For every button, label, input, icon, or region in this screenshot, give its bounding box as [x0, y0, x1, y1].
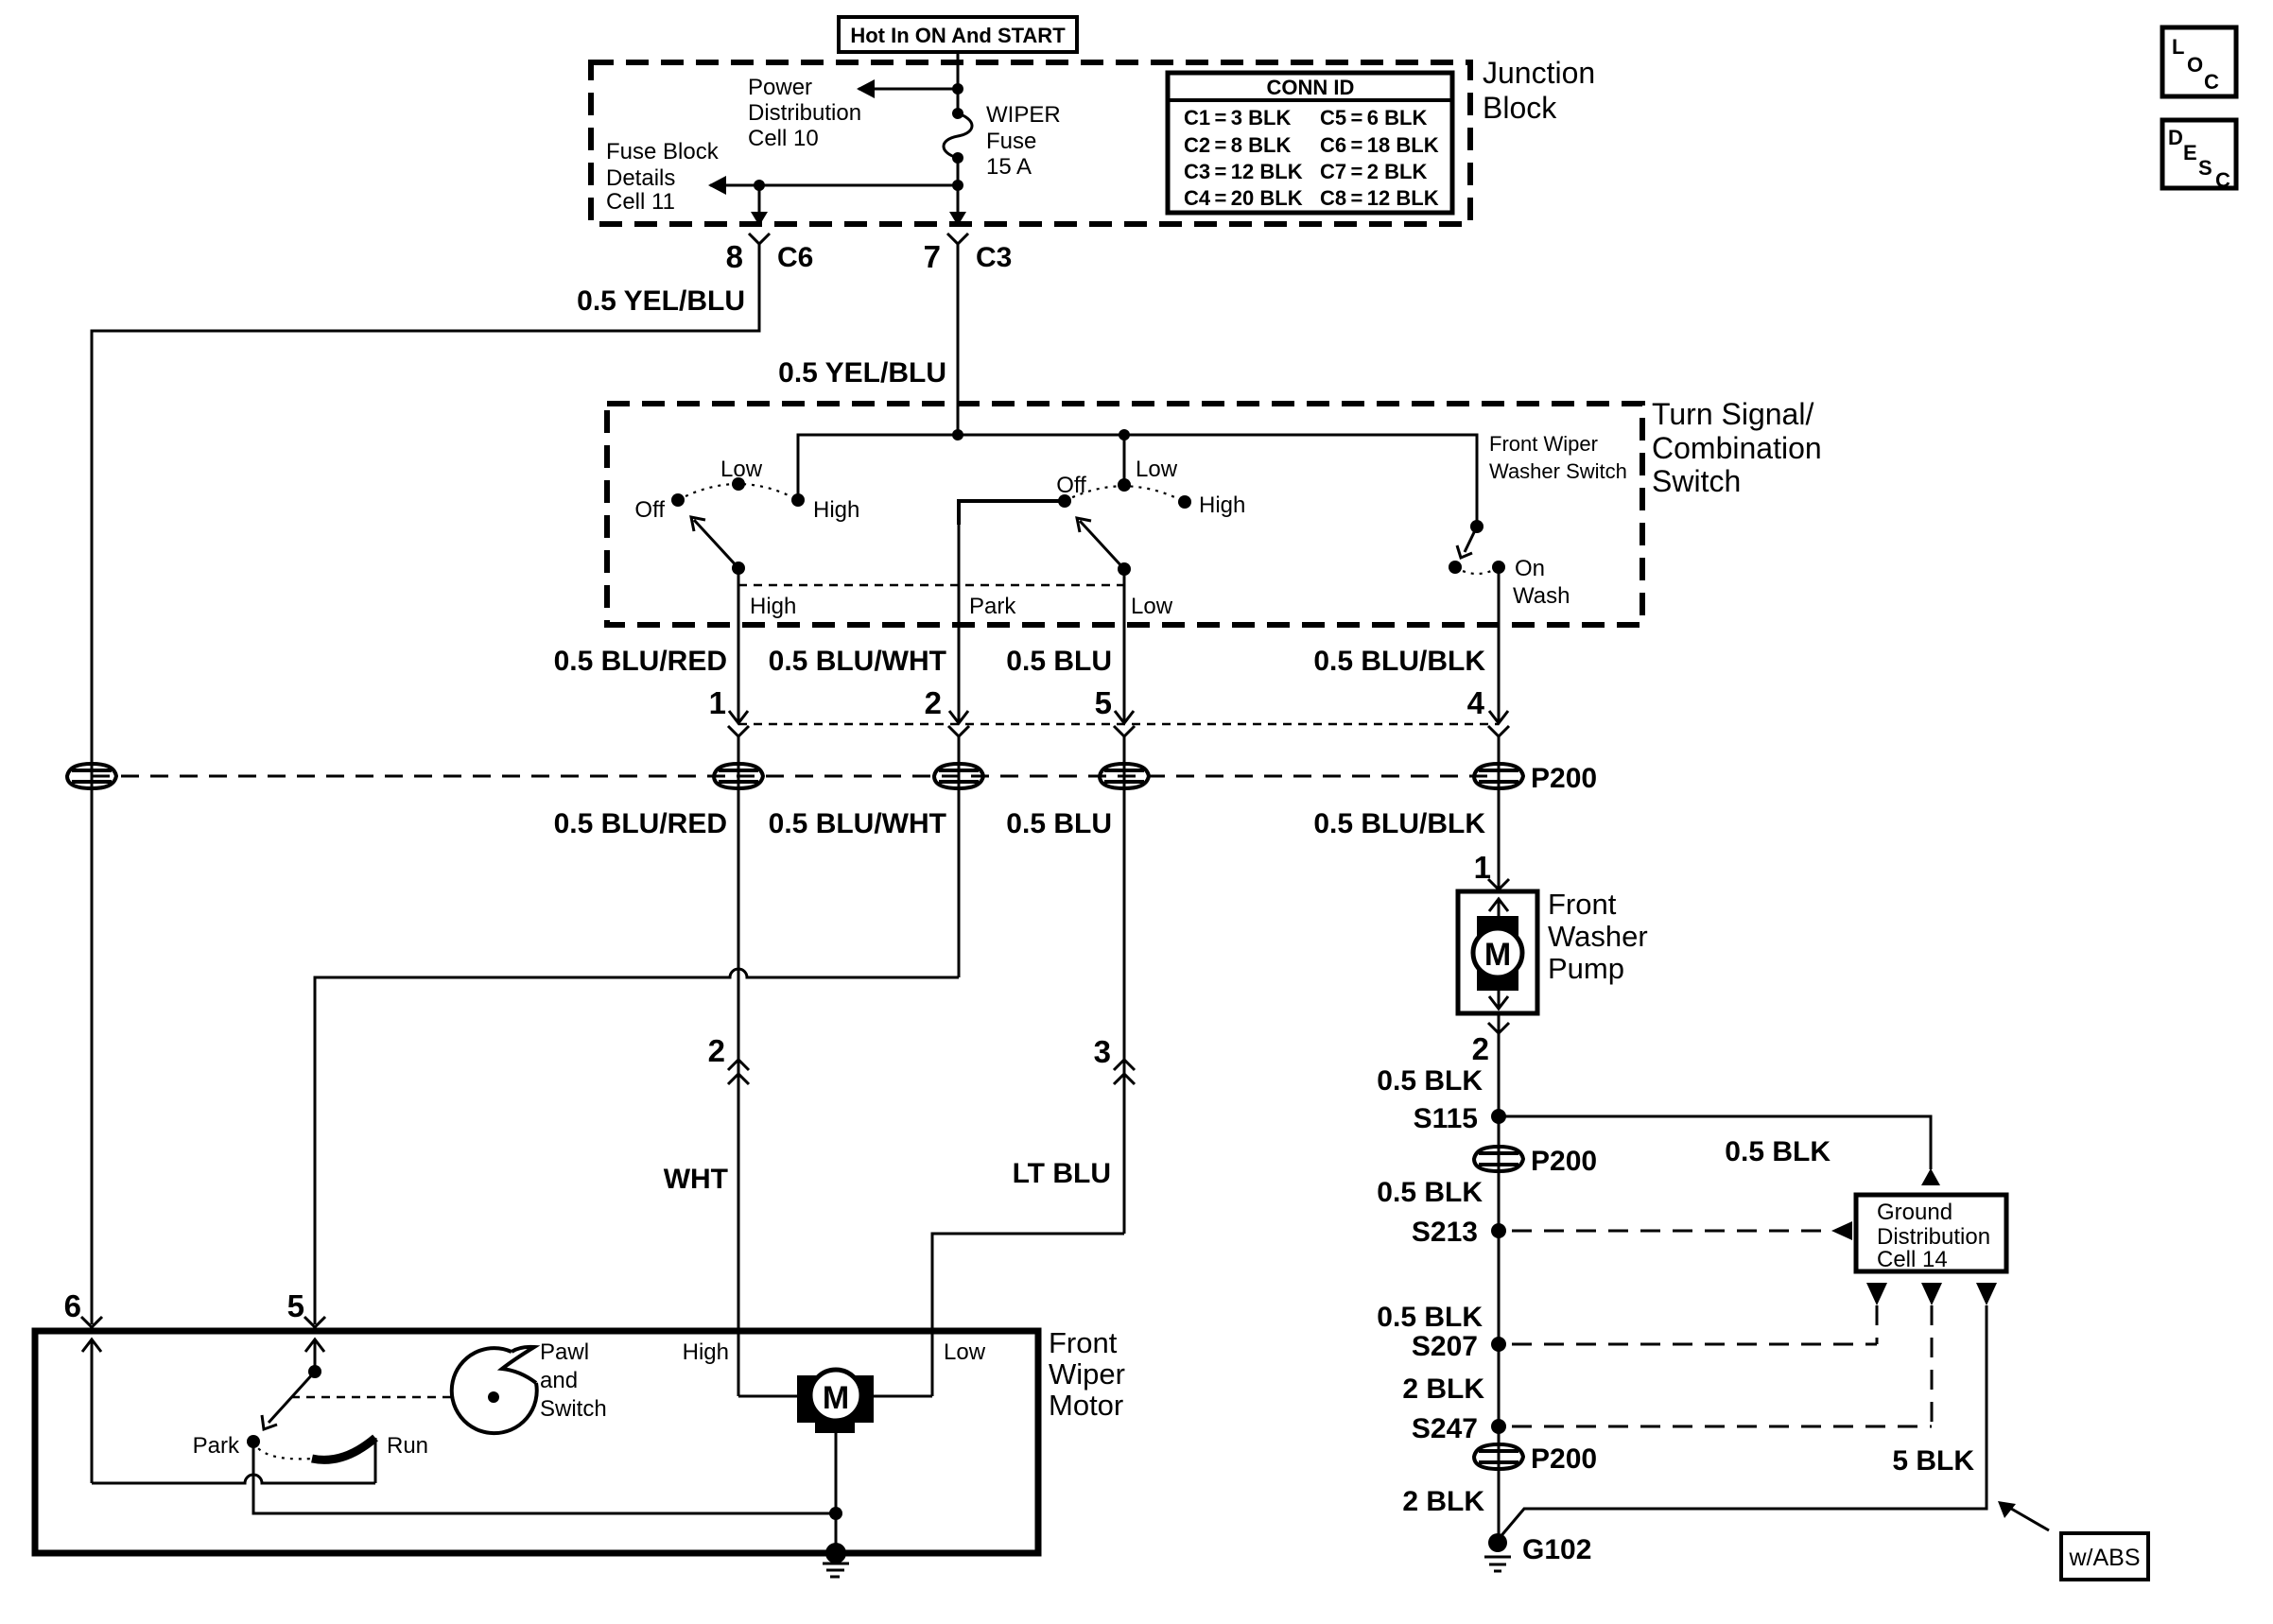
switch wiper select mid: Off/Low/High [1065, 486, 1185, 502]
svg-text:Park: Park [193, 1433, 240, 1459]
svg-text:C7 = 2 BLK: C7 = 2 BLK [1320, 160, 1427, 183]
switch front wiper washer [1470, 520, 1484, 533]
wire dashed stub to S207 [1876, 1305, 1879, 1344]
w/ABS callout [2006, 1506, 2049, 1530]
svg-text:0.5 YEL/BLU: 0.5 YEL/BLU [577, 285, 745, 317]
svg-text:WIPER: WIPER [986, 102, 1061, 128]
node motor common [829, 1507, 842, 1520]
svg-text:Junction: Junction [1483, 56, 1595, 90]
motor M1 washer pump symbol [1498, 900, 1501, 919]
svg-text:Turn Signal/: Turn Signal/ [1652, 397, 1813, 431]
wire high into motor [738, 1395, 810, 1398]
wire low to motor [932, 1234, 1124, 1396]
svg-text:w/ABS: w/ABS [2068, 1545, 2140, 1571]
svg-text:C3: C3 [976, 242, 1012, 273]
dashed link lever to pawl [291, 1396, 451, 1399]
node S247 [1491, 1419, 1506, 1434]
svg-text:P200: P200 [1531, 763, 1597, 794]
svg-text:Front: Front [1548, 888, 1617, 921]
svg-text:15 A: 15 A [986, 154, 1032, 180]
park/run switch lever [308, 1365, 321, 1378]
wire from hot box into fuse [957, 52, 960, 113]
node S207 [1491, 1337, 1506, 1352]
svg-text:Low: Low [1131, 594, 1173, 619]
svg-text:0.5 BLU/RED: 0.5 BLU/RED [554, 808, 727, 839]
fuse F1 WIPER 15A [952, 108, 963, 119]
node bus low junction [1119, 429, 1130, 441]
svg-text:Wiper: Wiper [1049, 1357, 1125, 1391]
svg-text:C8 = 12 BLK: C8 = 12 BLK [1320, 186, 1439, 210]
svg-text:E: E [2183, 141, 2197, 164]
svg-text:0.5 YEL/BLU: 0.5 YEL/BLU [778, 357, 946, 389]
wire low into motor [861, 1395, 932, 1398]
svg-text:and: and [540, 1368, 578, 1393]
wire high drop [737, 568, 740, 722]
node bus C3 junction [952, 429, 963, 441]
svg-text:C1 = 3 BLK: C1 = 3 BLK [1184, 106, 1291, 130]
connector pin row dashed [738, 723, 1499, 726]
node park contact [247, 1435, 260, 1448]
svg-text:M: M [1484, 937, 1511, 973]
svg-text:5 BLK: 5 BLK [1892, 1445, 1974, 1477]
svg-text:C5 = 6 BLK: C5 = 6 BLK [1320, 106, 1427, 130]
svg-text:High: High [683, 1339, 729, 1365]
wire S115 branch to ground distribution [1499, 1116, 1931, 1169]
svg-text:Cell 14: Cell 14 [1877, 1247, 1948, 1272]
pawl and switch cam [452, 1348, 537, 1433]
svg-text:D: D [2168, 126, 2183, 149]
node fuse block tap [952, 180, 963, 191]
wire park drop [958, 501, 961, 722]
motor M2 front wiper symbol [797, 1375, 874, 1423]
svg-text:P200: P200 [1531, 1146, 1597, 1177]
wire dashed stub to S247 [1931, 1305, 1934, 1426]
svg-text:S: S [2198, 156, 2212, 180]
svg-text:High: High [750, 594, 796, 619]
svg-text:Park: Park [969, 594, 1016, 619]
svg-text:LT BLU: LT BLU [1013, 1158, 1111, 1189]
pin 2 washer pump [1488, 1023, 1509, 1033]
svg-text:5: 5 [1095, 685, 1112, 720]
svg-text:0.5 BLK: 0.5 BLK [1377, 1177, 1483, 1208]
svg-text:C4 = 20 BLK: C4 = 20 BLK [1184, 186, 1303, 210]
svg-text:M: M [823, 1380, 849, 1416]
node S115 [1491, 1109, 1506, 1124]
pin arrows into connector row [729, 711, 748, 723]
LOC box [2162, 27, 2236, 96]
svg-text:Ground: Ground [1877, 1200, 1952, 1225]
svg-text:8: 8 [726, 239, 743, 274]
svg-text:S247: S247 [1412, 1413, 1478, 1444]
wire terminal6 to run with hop [92, 1475, 375, 1483]
svg-text:G102: G102 [1522, 1534, 1591, 1565]
wire washer pump ground leg [1498, 1013, 1501, 1541]
wire feed bus [798, 435, 1477, 527]
svg-text:S207: S207 [1412, 1331, 1478, 1362]
svg-text:C: C [2215, 168, 2230, 192]
svg-text:Low: Low [944, 1339, 986, 1365]
svg-text:0.5 BLK: 0.5 BLK [1377, 1302, 1483, 1333]
wire fuse block details arrow [710, 184, 958, 187]
park run contact arc [253, 1442, 312, 1459]
wire low drop [1123, 569, 1126, 722]
svg-text:2: 2 [1472, 1031, 1489, 1066]
switch wiper select left: Off/Low/High [678, 484, 798, 500]
wire 0.5 YEL/BLU from C3 [957, 244, 960, 435]
svg-text:Low: Low [720, 457, 763, 482]
svg-text:4: 4 [1467, 685, 1485, 720]
svg-text:WHT: WHT [664, 1164, 728, 1195]
wire S207 dashed branch [1512, 1343, 1877, 1346]
svg-text:0.5 BLK: 0.5 BLK [1725, 1136, 1831, 1167]
wire segments to P200 row [737, 736, 740, 1396]
svg-text:Wash: Wash [1513, 583, 1570, 609]
svg-text:C3 = 12 BLK: C3 = 12 BLK [1184, 160, 1303, 183]
svg-text:Front Wiper: Front Wiper [1489, 432, 1598, 456]
pin 8 C6 exit arrows [751, 212, 768, 226]
switch lever left [694, 520, 738, 568]
svg-text:Hot In ON And START: Hot In ON And START [850, 24, 1066, 47]
svg-text:Cell 11: Cell 11 [606, 189, 675, 215]
svg-text:Power: Power [748, 75, 812, 100]
svg-text:Pump: Pump [1548, 952, 1624, 985]
ground distribution cell 14 box [1856, 1195, 2006, 1271]
svg-text:Fuse: Fuse [986, 129, 1036, 154]
wire low feed [1123, 435, 1126, 485]
svg-text:Washer Switch: Washer Switch [1489, 459, 1627, 483]
connector P200 on left rail [67, 764, 116, 788]
wire wash drop [1498, 567, 1501, 722]
connector P200 blu/red [714, 764, 763, 788]
svg-text:3: 3 [1094, 1034, 1111, 1069]
svg-text:0.5 BLU/WHT: 0.5 BLU/WHT [769, 808, 946, 839]
svg-text:2 BLK: 2 BLK [1402, 1486, 1484, 1517]
svg-text:C6: C6 [777, 242, 813, 273]
svg-text:Fuse Block: Fuse Block [606, 139, 720, 164]
ground G102 [1488, 1533, 1507, 1552]
svg-text:Cell 10: Cell 10 [748, 126, 819, 151]
switch lever mid [1080, 521, 1124, 569]
svg-text:Combination: Combination [1652, 431, 1822, 465]
svg-text:Run: Run [387, 1433, 428, 1459]
svg-text:2 BLK: 2 BLK [1402, 1373, 1484, 1405]
wire S247 dashed branch [1512, 1425, 1932, 1428]
svg-text:Block: Block [1483, 91, 1557, 125]
svg-text:Motor: Motor [1049, 1389, 1123, 1422]
ground motor case [825, 1543, 846, 1564]
svg-text:High: High [813, 497, 859, 523]
node power distribution tap [952, 83, 963, 95]
svg-text:0.5 BLU: 0.5 BLU [1006, 646, 1112, 677]
svg-text:C2 = 8 BLK: C2 = 8 BLK [1184, 133, 1291, 157]
turn signal / combination switch dashed box [607, 404, 1642, 625]
svg-text:O: O [2187, 53, 2203, 77]
svg-text:Front: Front [1049, 1326, 1118, 1359]
svg-text:0.5 BLU/BLK: 0.5 BLU/BLK [1313, 646, 1485, 677]
svg-text:0.5 BLU: 0.5 BLU [1006, 808, 1112, 839]
junction block dashed box [591, 62, 1470, 224]
svg-text:Details: Details [606, 165, 675, 191]
node S213 [1491, 1223, 1506, 1238]
svg-text:Off: Off [1056, 473, 1086, 498]
wire power distribution arrow [859, 88, 958, 91]
svg-text:5: 5 [287, 1288, 304, 1323]
svg-text:6: 6 [64, 1288, 81, 1323]
svg-text:S115: S115 [1414, 1103, 1478, 1134]
svg-text:Distribution: Distribution [1877, 1224, 1990, 1250]
wire park to motor common [253, 1442, 836, 1513]
connector P200 blu/blk [1474, 764, 1523, 788]
DESC box [2162, 120, 2236, 188]
wire 0.5 YEL/BLU from C6 down left rail [92, 244, 759, 1324]
svg-text:Low: Low [1136, 457, 1178, 482]
Hot In ON And START box [839, 17, 1077, 52]
connector P200 blk [1474, 1147, 1523, 1171]
front wiper motor box [35, 1331, 1038, 1553]
connector P200 bottom [1474, 1444, 1523, 1469]
P200 pass-through dashed line [92, 775, 1499, 778]
svg-text:C: C [2204, 70, 2219, 94]
ground distribution exit arrows [1866, 1283, 1887, 1305]
wire C6 drop [758, 185, 761, 223]
svg-text:0.5 BLU/RED: 0.5 BLU/RED [554, 646, 727, 677]
svg-text:Distribution: Distribution [748, 100, 861, 126]
svg-text:2: 2 [925, 685, 942, 720]
svg-text:0.5 BLU/WHT: 0.5 BLU/WHT [769, 646, 946, 677]
svg-text:Pawl: Pawl [540, 1339, 589, 1365]
svg-text:Switch: Switch [1652, 464, 1741, 498]
connector P200 blu [1100, 764, 1149, 788]
svg-text:0.5 BLU/BLK: 0.5 BLU/BLK [1313, 808, 1485, 839]
svg-text:P200: P200 [1531, 1443, 1597, 1475]
svg-text:1: 1 [709, 685, 726, 720]
svg-text:2: 2 [708, 1033, 725, 1068]
wire 5 BLK from ground distribution [1499, 1305, 1987, 1539]
wire run contact [374, 1438, 377, 1483]
wire fuse to C3 exit [957, 158, 960, 223]
svg-text:C6 = 18 BLK: C6 = 18 BLK [1320, 133, 1439, 157]
CONN ID table [1168, 73, 1452, 213]
svg-text:CONN ID: CONN ID [1267, 76, 1355, 99]
svg-text:S213: S213 [1412, 1217, 1478, 1248]
node C6 tap [754, 180, 765, 191]
front washer pump box [1458, 891, 1537, 1013]
wire motor to ground [835, 1433, 838, 1553]
svg-text:On: On [1515, 556, 1545, 581]
wire S213 dashed to ground distribution [1512, 1230, 1829, 1233]
wire park to terminal 5 with hop [315, 969, 959, 1324]
svg-text:Switch: Switch [540, 1396, 607, 1422]
connector P200 blu/wht [934, 764, 983, 788]
inner contact dashed line [738, 584, 1124, 587]
svg-text:0.5 BLK: 0.5 BLK [1377, 1065, 1483, 1097]
svg-text:L: L [2172, 35, 2184, 59]
wire park from off contact [959, 501, 1065, 525]
svg-text:Washer: Washer [1548, 920, 1648, 953]
svg-text:Off: Off [634, 497, 665, 523]
svg-text:7: 7 [924, 239, 941, 274]
svg-text:High: High [1199, 492, 1245, 518]
